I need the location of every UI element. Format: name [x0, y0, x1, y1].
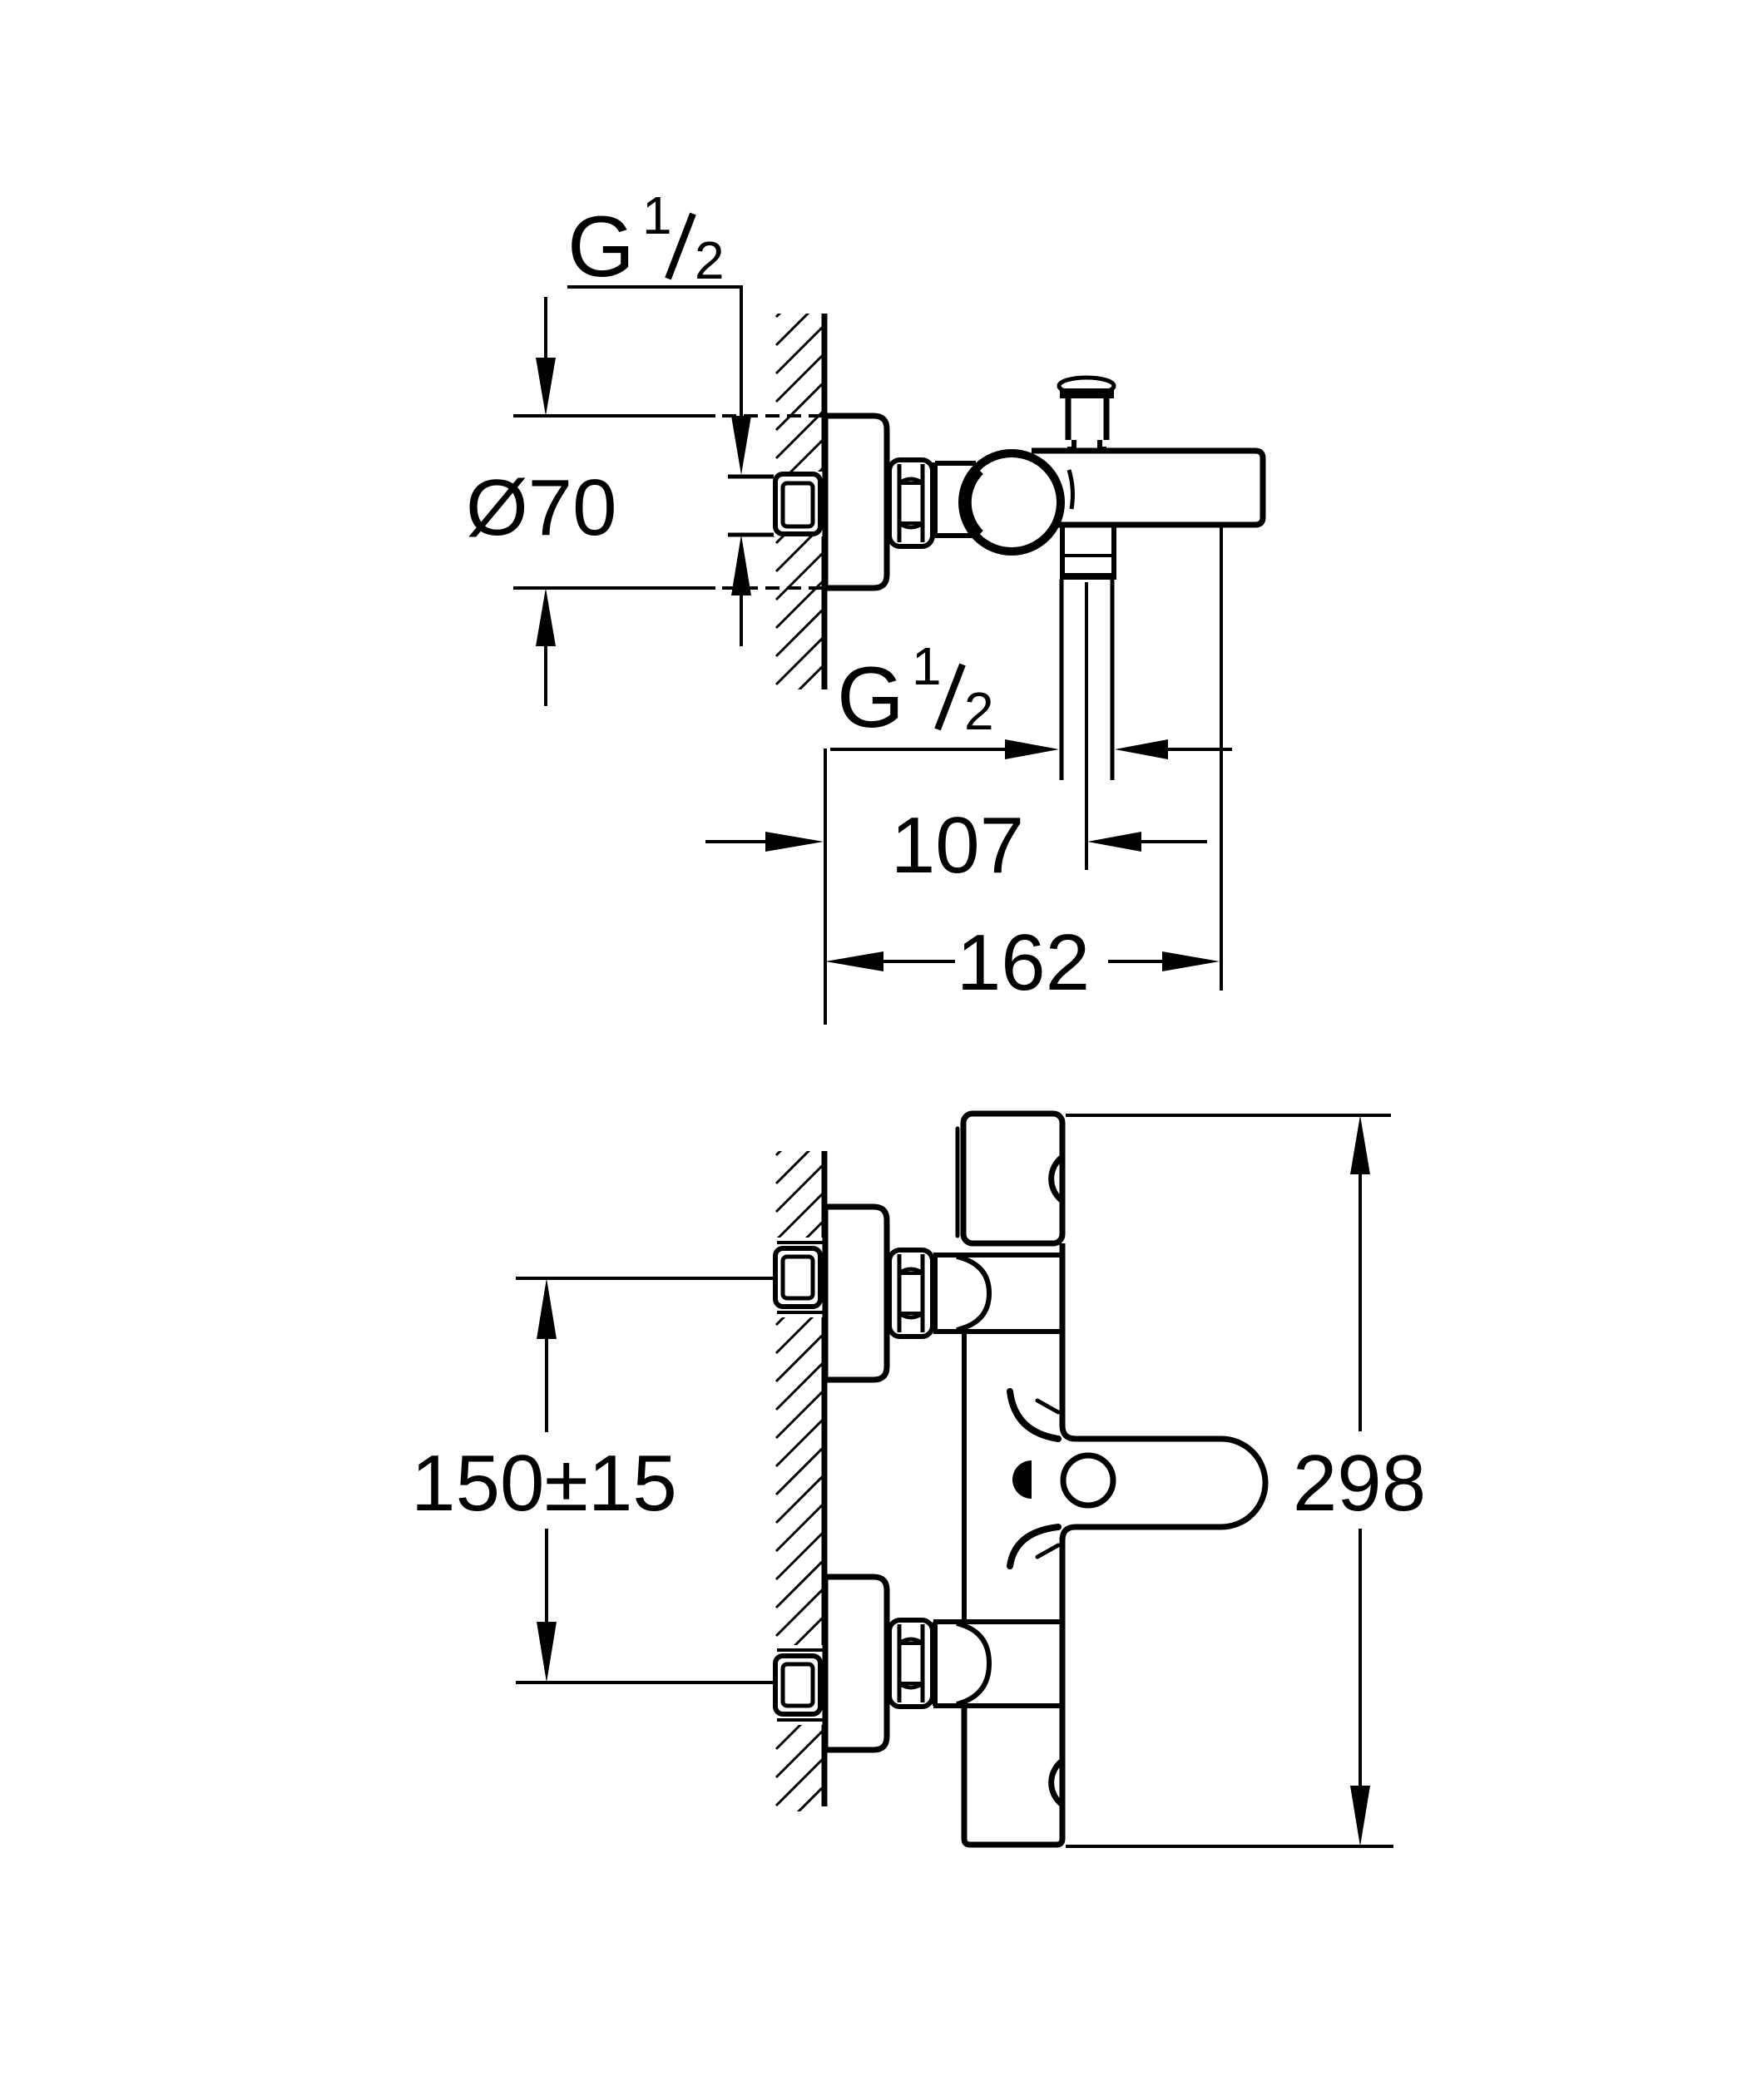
svg-text:107: 107 [891, 801, 1024, 890]
arrow up at pipe bottom edge [731, 535, 751, 595]
upper inlet: cone [933, 1255, 938, 1332]
lower inlet: connection block [933, 1619, 1063, 1624]
dimension Ø70 extension line top (with dashes near wall) [513, 414, 715, 418]
hose centre line [1085, 582, 1088, 870]
dimension 162 [825, 951, 883, 971]
ball joint / thermostat handle circle (top view) [963, 453, 1061, 551]
faucet body bar (top view) [1032, 451, 1263, 525]
escutcheon rosette (top view) [825, 416, 887, 588]
svg-text:2: 2 [695, 230, 725, 290]
lower inlet: wall nut [775, 1656, 820, 1714]
arrow down at pipe top edge [731, 416, 751, 475]
wall line (top view) [822, 314, 828, 689]
svg-text:G: G [837, 650, 904, 746]
shower outlet block (top view) [1060, 526, 1065, 578]
leader line from G1/2 to pipe dimension [567, 287, 741, 420]
label G1/2 (second, below wall) [837, 636, 994, 746]
spout claw lower [1010, 1527, 1058, 1566]
safety button bump (upper) [1052, 1157, 1062, 1201]
safety button bump (lower) [1052, 1761, 1062, 1805]
svg-text:Ø70: Ø70 [466, 463, 616, 552]
thermostat handle cap (side view top) [963, 1114, 1062, 1243]
bath spout (side view) [1062, 1426, 1265, 1540]
extension line at wall face [824, 749, 827, 1025]
dimension 150±15 [516, 1277, 776, 1280]
lower inlet: cone [933, 1622, 938, 1706]
svg-text:162: 162 [957, 918, 1090, 1007]
svg-text:2: 2 [964, 681, 994, 741]
svg-text:G: G [567, 199, 635, 295]
fillet arc right of ball [1069, 470, 1072, 509]
dimension 107 [705, 840, 765, 843]
lower inlet: hex nipple [889, 1620, 933, 1707]
dimension Ø70 extension line bottom [513, 586, 715, 590]
spout claw upper [1010, 1391, 1058, 1439]
upper inlet: wall nut [775, 1248, 820, 1307]
shower hose nipple lines [1060, 580, 1064, 780]
extension line at spout end [1220, 527, 1223, 991]
upper inlet: hex nipple [889, 1250, 933, 1337]
upper inlet: pipe lines [774, 1238, 824, 1317]
svg-text:1: 1 [642, 185, 672, 245]
cone adapter (top view) [933, 462, 938, 536]
upper inlet: connection block [933, 1253, 1063, 1258]
label G1/2 (top) [567, 185, 725, 295]
diverter knob (top view) [1059, 378, 1114, 394]
dimension 298 [1066, 1114, 1391, 1117]
Ø70 vertical dim line with outside arrows [544, 297, 547, 361]
svg-text:1: 1 [912, 636, 942, 696]
wall hatching (side view) [776, 1109, 823, 1834]
aerator half-moon (filled) [1012, 1460, 1032, 1499]
wall-side square nut (top view) [774, 472, 823, 536]
bottom handle section (side view) [964, 1706, 1062, 1845]
wall line (side view) [822, 1151, 828, 1806]
wall hatching (top view) [776, 270, 823, 713]
lower inlet: pipe lines [774, 1645, 824, 1725]
svg-text:298: 298 [1293, 1439, 1426, 1528]
G1/2 hose dimension line with arrows [830, 748, 1005, 751]
spout outlet circle [1063, 1455, 1113, 1505]
lower inlet: escutcheon [825, 1577, 887, 1750]
svg-text:150±15: 150±15 [411, 1439, 677, 1528]
pipe stub extension lines (G1/2 thread) [728, 475, 775, 479]
body front slab edges (side view) [962, 1332, 967, 1623]
hex union nipple (top view) [889, 460, 933, 546]
upper inlet: escutcheon [825, 1207, 887, 1380]
